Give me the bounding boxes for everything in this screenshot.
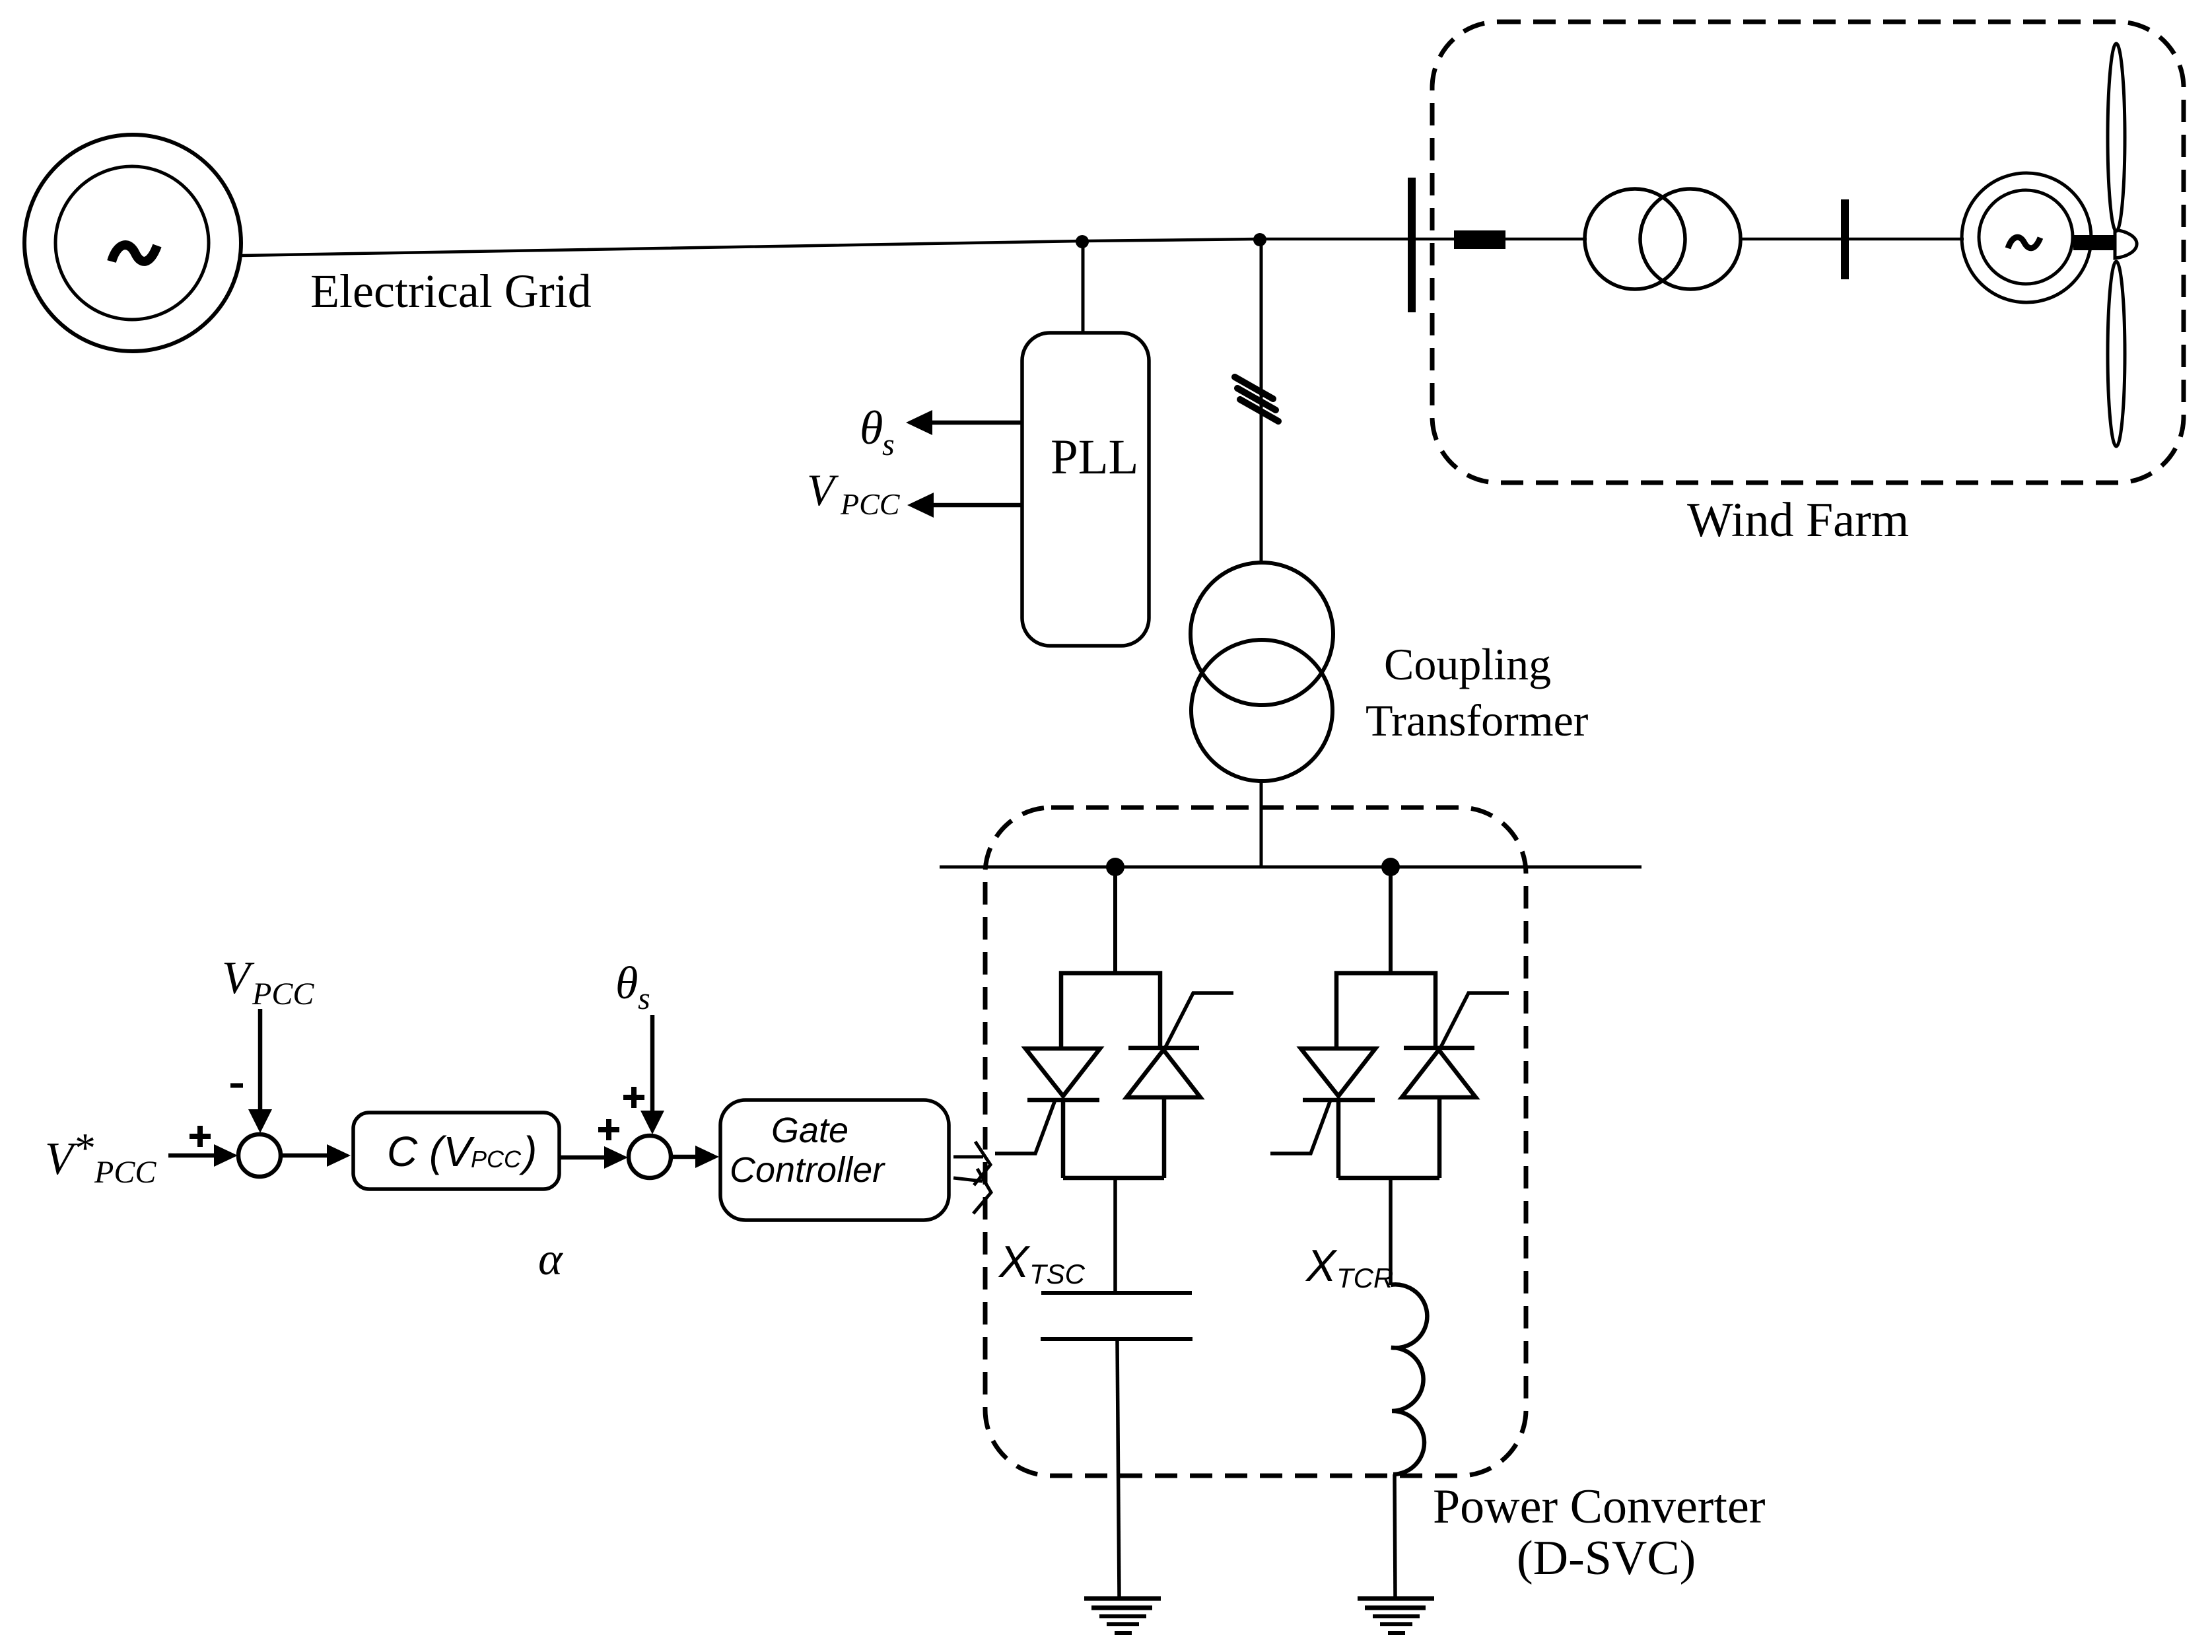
wind farm dashed boundary [1432, 22, 2184, 483]
wire node1 to PLL [1082, 242, 1085, 334]
minus sign sum1 [230, 1084, 243, 1088]
generator G2 (wind turbine) [1962, 173, 2091, 302]
svg-text:C (V: C (V [387, 1128, 475, 1175]
wire transformer to D-SVC bus [1260, 781, 1263, 868]
arrow gate pulse 1 [953, 1142, 990, 1185]
svg-text:PCC: PCC [94, 1155, 156, 1190]
thyristor TCR right (up) [1402, 993, 1509, 1097]
breaker bus bar B1 [1408, 178, 1416, 312]
arrow gate pulse 2 [953, 1169, 991, 1214]
svg-text:θ: θ [860, 401, 883, 454]
turbine blade upper [2108, 44, 2125, 231]
inductor L_TCR [1391, 1284, 1427, 1474]
arrow sum1 to controller [281, 1144, 351, 1167]
three-phase slash marks [1235, 377, 1278, 421]
bus D-SVC [940, 866, 1642, 869]
arrow V_PCC down to sum1 [248, 1009, 272, 1133]
thyristor TSC right (up) [1126, 993, 1233, 1097]
breaker bar B2 [1841, 199, 1849, 279]
wire transformer to generator [1739, 238, 1964, 241]
svg-text:TCR: TCR [1336, 1262, 1393, 1293]
thyristor TCR left (down) [1270, 1049, 1375, 1153]
node PCC junction 1 [1076, 235, 1089, 248]
node PCC junction 2 [1253, 233, 1266, 246]
svg-text:s: s [882, 427, 895, 462]
impedance block (solid) [1454, 230, 1505, 249]
arrow sum2 to gate controller [671, 1146, 719, 1168]
svg-text:Coupling: Coupling [1384, 639, 1551, 689]
arrow theta_s down to sum2 [640, 1015, 664, 1134]
svg-text:Gate: Gate [771, 1111, 848, 1150]
capacitor C_TSC [1041, 1293, 1192, 1339]
block PLL [1022, 333, 1149, 646]
summing junction 2 [629, 1136, 671, 1178]
svg-text:X: X [1305, 1241, 1338, 1291]
thyristor TSC left (down) [995, 1049, 1100, 1153]
svg-text:Controller: Controller [730, 1150, 885, 1190]
svg-text:PCC: PCC [252, 977, 314, 1012]
svg-text:s: s [638, 981, 650, 1016]
coupling transformer T1 [1191, 563, 1333, 781]
block C(V_PCC) controller [353, 1113, 559, 1189]
svg-text:V: V [222, 953, 255, 1004]
ground TCR [1358, 1599, 1434, 1633]
wire bus to TCR valve [1389, 867, 1393, 973]
plus sign sum2 top [623, 1087, 644, 1108]
power converter D-SVC dashed boundary [985, 808, 1526, 1476]
summing junction 1 [238, 1134, 281, 1177]
svg-text:PCC: PCC [840, 487, 901, 521]
svg-text:V: V [45, 1134, 78, 1185]
arrow Vref to sum1 [168, 1144, 238, 1167]
generator G1 (electrical grid source) [24, 135, 241, 351]
turbine shaft [2073, 235, 2115, 250]
transformer T2 (wind farm) [1585, 189, 1741, 289]
TCR valve top link [1336, 973, 1435, 1049]
TSC valve top link [1061, 973, 1160, 1049]
wire valve to capacitor [1113, 1178, 1117, 1293]
wire inductor to ground [1395, 1474, 1395, 1597]
wire valve to inductor [1389, 1178, 1393, 1285]
wire node2 to coupling transformer [1260, 240, 1263, 563]
svg-text:PCC: PCC [471, 1146, 522, 1173]
arrow theta_s output [906, 410, 1022, 435]
arrow V_PCC output [907, 493, 1022, 518]
node TSC tap [1106, 858, 1124, 876]
plus sign sum2 input [598, 1119, 619, 1140]
svg-text:*: * [75, 1124, 96, 1171]
wire main transmission line [242, 239, 1587, 256]
svg-text:θ: θ [615, 958, 638, 1009]
TCR valve bottom link [1338, 1097, 1439, 1178]
turbine blade lower [2108, 261, 2125, 446]
svg-text:TSC: TSC [1029, 1258, 1086, 1290]
svg-text:(D-SVC): (D-SVC) [1517, 1531, 1696, 1585]
svg-text:α: α [538, 1234, 563, 1285]
wire bus to TSC valve [1113, 867, 1117, 973]
node TCR tap [1381, 858, 1400, 876]
ground TSC [1084, 1599, 1161, 1633]
svg-text:Power Converter: Power Converter [1433, 1480, 1765, 1534]
svg-text:Transformer: Transformer [1365, 695, 1589, 745]
turbine hub [2115, 230, 2137, 258]
wire capacitor to ground [1117, 1341, 1119, 1597]
plus sign sum1 [190, 1126, 211, 1147]
svg-text:PLL: PLL [1051, 430, 1138, 485]
block Gate Controller [720, 1100, 949, 1220]
TSC valve bottom link [1063, 1097, 1164, 1178]
svg-text:Electrical Grid: Electrical Grid [310, 265, 592, 318]
svg-text:Wind Farm: Wind Farm [1687, 493, 1909, 547]
svg-text:X: X [998, 1237, 1031, 1287]
arrow controller to sum2 [559, 1146, 628, 1169]
